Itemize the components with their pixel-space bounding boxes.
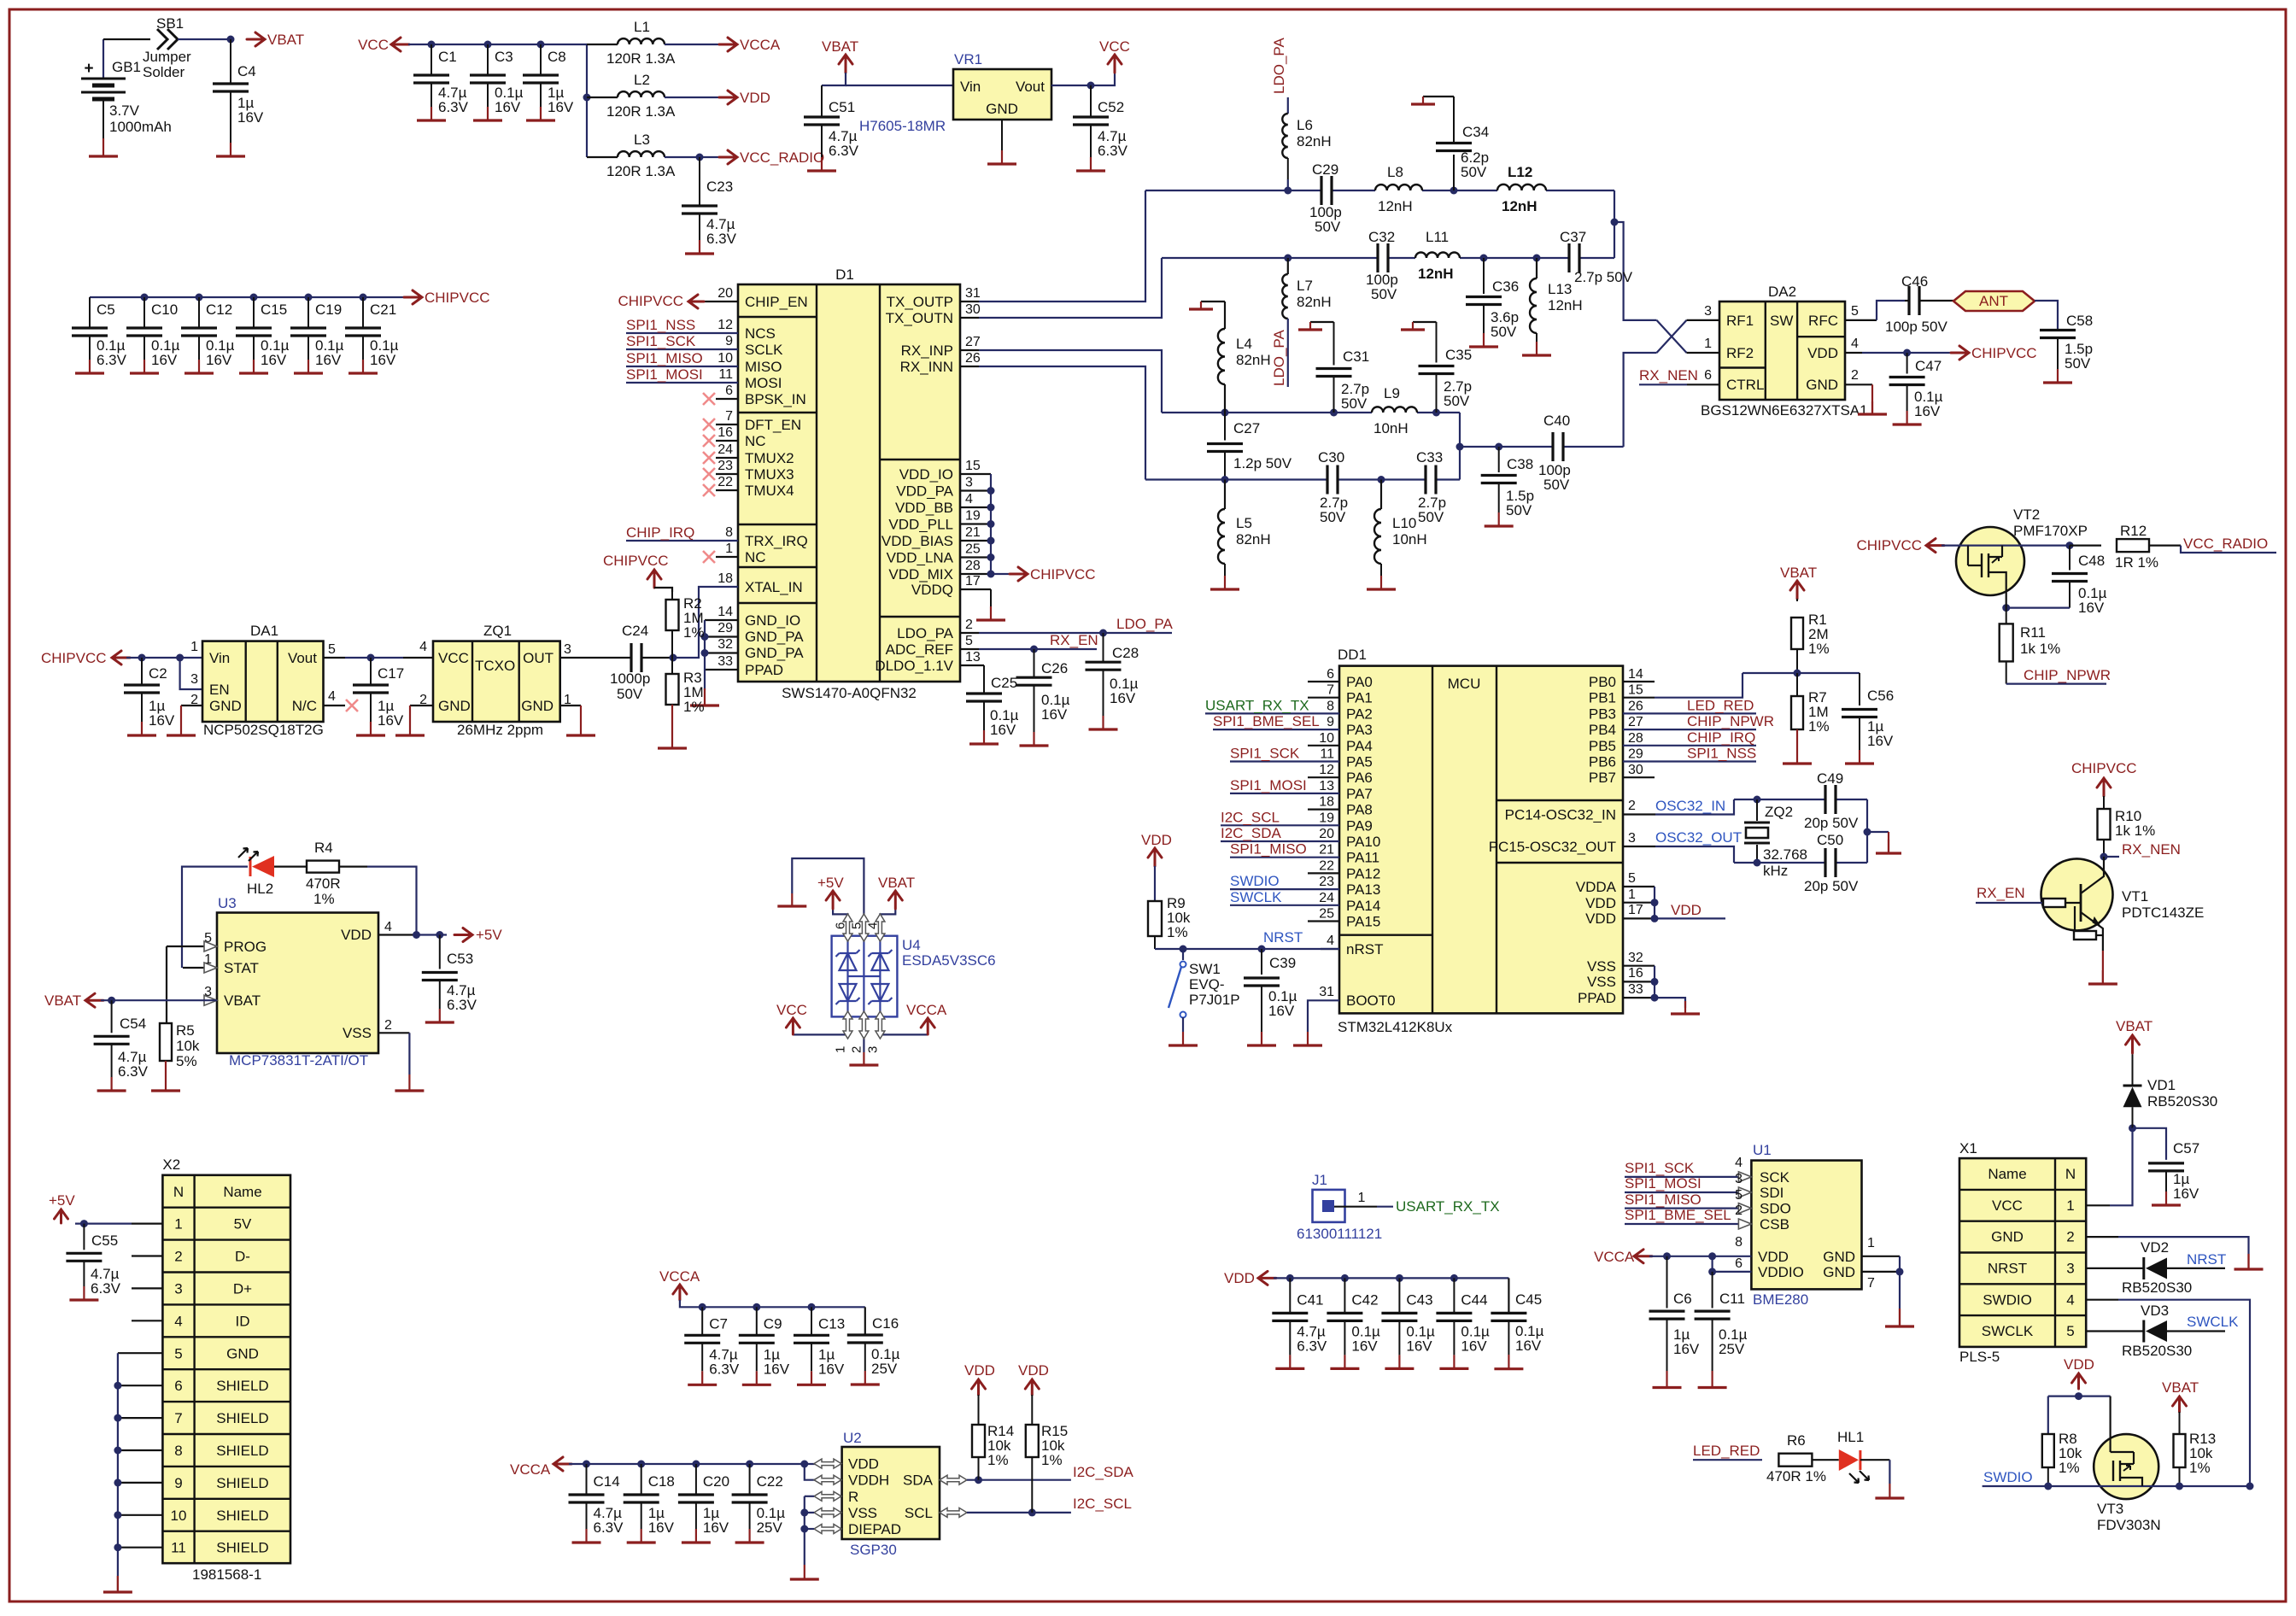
IC ZQ1 pin 4 VCC — [403, 640, 469, 666]
svg-text:16V: 16V — [1914, 403, 1941, 419]
svg-text:NCP502SQ18T2G: NCP502SQ18T2G — [203, 722, 324, 738]
svg-text:C58: C58 — [2066, 313, 2093, 329]
svg-text:RX_INN: RX_INN — [900, 359, 953, 375]
svg-text:16V: 16V — [818, 1361, 845, 1377]
svg-text:PA1: PA1 — [1346, 690, 1373, 706]
svg-text:6: 6 — [834, 922, 848, 929]
svg-text:16V: 16V — [990, 722, 1016, 738]
svg-text:LDO_PA: LDO_PA — [897, 625, 953, 641]
net CHIPVCC flag — [2071, 760, 2137, 796]
svg-text:C38: C38 — [1507, 456, 1533, 472]
svg-text:VDD: VDD — [1141, 832, 1172, 848]
svg-text:11: 11 — [718, 367, 733, 382]
svg-text:nRST: nRST — [1346, 941, 1383, 957]
svg-text:VCCA: VCCA — [906, 1002, 947, 1018]
svg-text:VDDIO: VDDIO — [1758, 1264, 1804, 1280]
wire — [805, 1464, 822, 1480]
svg-text:5: 5 — [174, 1345, 182, 1361]
voltage regulator VR1 — [953, 51, 1051, 120]
svg-text:16V: 16V — [2173, 1186, 2199, 1202]
X1 pin 1 VCC wire — [2086, 1128, 2132, 1206]
svg-text:PB3: PB3 — [1589, 706, 1616, 722]
wire — [101, 999, 217, 1001]
wire — [178, 38, 231, 40]
net VDD flag — [2064, 1356, 2094, 1389]
svg-text:1: 1 — [1704, 337, 1712, 351]
svg-text:NC: NC — [745, 433, 766, 449]
IC D1 pin 26 RX_INN — [900, 351, 1145, 480]
svg-text:D-: D- — [235, 1249, 250, 1265]
svg-text:SGP30: SGP30 — [850, 1542, 897, 1558]
svg-text:82nH: 82nH — [1297, 294, 1332, 310]
IC DA1 pin 5 Vout — [288, 642, 403, 666]
svg-text:PB5: PB5 — [1589, 738, 1616, 754]
ground — [1671, 1001, 1700, 1014]
svg-text:VDD: VDD — [1671, 902, 1701, 918]
svg-text:RB520S30: RB520S30 — [2122, 1279, 2192, 1296]
svg-text:VDDH: VDDH — [848, 1473, 889, 1489]
X2 pin 3 stub — [132, 1287, 162, 1289]
net LDO_PA label (rotated) — [1271, 38, 1288, 114]
net CHIPVCC flag — [404, 290, 490, 306]
svg-text:C19: C19 — [315, 302, 342, 318]
svg-text:C37: C37 — [1560, 229, 1586, 245]
svg-text:50V: 50V — [2065, 355, 2091, 372]
resistor R5 — [160, 1022, 200, 1077]
ground — [1885, 1309, 1914, 1326]
node — [2002, 604, 2010, 612]
svg-text:RX_NEN: RX_NEN — [1639, 367, 1698, 384]
capacitor C19 — [290, 297, 344, 373]
IC U1 pin 3 SDI / net SPI1_MOSI — [1625, 1172, 1751, 1197]
sensor U1 BME280 body — [1751, 1142, 1861, 1308]
IC U2 pin SCL / net I2C_SCL — [940, 1496, 1132, 1517]
resistor R15 — [1026, 1395, 1068, 1513]
IC U3 pin 3 VBAT — [204, 985, 261, 1009]
svg-text:USART_RX_TX: USART_RX_TX — [1396, 1198, 1500, 1215]
svg-text:1: 1 — [1358, 1191, 1366, 1205]
node — [1221, 476, 1229, 483]
svg-text:6.3V: 6.3V — [1297, 1338, 1327, 1354]
svg-text:PA3: PA3 — [1346, 722, 1373, 738]
capacitor C23 — [682, 157, 737, 254]
capacitor C15 — [236, 297, 290, 373]
IC D1 pin 17 VDDQ — [911, 574, 1005, 620]
wire CHIPVCC rail — [90, 296, 407, 298]
svg-text:6.3V: 6.3V — [594, 1519, 624, 1536]
IC D1 pin 5 ADC_REF / net RX_EN — [886, 632, 1098, 658]
svg-text:16V: 16V — [764, 1361, 790, 1377]
IC DA2 pin 5 RFC — [1808, 301, 1905, 329]
svg-text:PLS-5: PLS-5 — [1959, 1349, 2000, 1365]
svg-text:VD1: VD1 — [2147, 1077, 2176, 1093]
node — [746, 1461, 753, 1468]
IC U4 pin 6 / net +5V — [817, 875, 852, 941]
svg-text:PB4: PB4 — [1589, 722, 1616, 738]
IC ZQ1 pin 1 GND — [521, 693, 595, 735]
svg-text:J1: J1 — [1312, 1172, 1327, 1188]
IC U4 pin 5 ground loop — [777, 858, 869, 941]
svg-text:L8: L8 — [1387, 164, 1403, 180]
svg-text:2: 2 — [2066, 1229, 2074, 1245]
svg-text:VDD: VDD — [1585, 895, 1616, 911]
svg-text:H7605-18MR: H7605-18MR — [859, 118, 946, 134]
X2 pin 4 stub — [132, 1320, 162, 1321]
svg-text:16V: 16V — [315, 352, 342, 368]
svg-text:SW: SW — [1770, 313, 1793, 329]
svg-text:9: 9 — [725, 334, 733, 348]
svg-text:12: 12 — [1319, 763, 1334, 777]
svg-text:29: 29 — [1628, 747, 1643, 762]
svg-text:1%: 1% — [2189, 1460, 2211, 1476]
svg-text:R6: R6 — [1787, 1432, 1806, 1449]
node — [1284, 187, 1291, 195]
svg-text:VT3: VT3 — [2097, 1501, 2123, 1517]
capacitor C10 — [126, 297, 180, 373]
node — [1903, 349, 1911, 357]
inductor L11 — [1415, 229, 1460, 282]
inductor L3 — [587, 132, 722, 179]
svg-text:10nH: 10nH — [1392, 531, 1427, 547]
svg-text:22: 22 — [1319, 858, 1334, 873]
diode VD1 RB520S30 — [2123, 1054, 2218, 1128]
svg-text:VDD_PA: VDD_PA — [896, 483, 953, 500]
node — [1754, 796, 1761, 804]
svg-text:C51: C51 — [829, 99, 855, 115]
resistor R3 — [666, 658, 705, 733]
transistor VT3 FDV303N — [2094, 1396, 2250, 1533]
svg-text:11: 11 — [171, 1540, 186, 1556]
IC U2 pin VDDH glyph — [814, 1475, 841, 1484]
svg-text:SCK: SCK — [1760, 1169, 1790, 1186]
svg-text:I2C_SDA: I2C_SDA — [1221, 825, 1282, 841]
inductor L12 — [1497, 164, 1546, 214]
svg-text:16V: 16V — [149, 712, 175, 729]
capacitor C48 — [2052, 546, 2107, 616]
net VDD flag — [1018, 1362, 1049, 1395]
wire osc bottom row — [1734, 862, 1867, 864]
node — [367, 654, 375, 662]
wire osc top row — [1734, 799, 1867, 800]
ground — [0, 0, 1, 1]
svg-text:L6: L6 — [1297, 117, 1313, 133]
svg-text:VDDQ: VDDQ — [911, 582, 953, 598]
svg-text:PPAD: PPAD — [745, 662, 783, 678]
node — [1456, 443, 1464, 451]
svg-text:82nH: 82nH — [1236, 352, 1271, 368]
svg-text:C50: C50 — [1817, 832, 1843, 848]
svg-text:VSS: VSS — [1587, 974, 1616, 990]
svg-text:15: 15 — [965, 459, 981, 473]
wire nRST — [1155, 948, 1339, 950]
svg-text:C45: C45 — [1515, 1291, 1542, 1308]
svg-text:28: 28 — [1628, 731, 1643, 746]
svg-text:PB0: PB0 — [1589, 674, 1616, 690]
capacitor C12 — [181, 297, 235, 373]
svg-text:120R 1.3A: 120R 1.3A — [606, 50, 676, 67]
svg-text:C28: C28 — [1112, 645, 1139, 661]
svg-text:BOOT0: BOOT0 — [1346, 992, 1396, 1009]
node — [696, 154, 704, 161]
svg-text:100p 50V: 100p 50V — [1885, 319, 1947, 335]
svg-text:14: 14 — [717, 605, 733, 619]
svg-text:BGS12WN6E6327XTSA1: BGS12WN6E6327XTSA1 — [1701, 402, 1868, 419]
node — [808, 1303, 816, 1311]
svg-text:L3: L3 — [634, 132, 650, 148]
svg-text:2: 2 — [1628, 799, 1636, 813]
svg-text:C3: C3 — [495, 49, 513, 65]
IC DA2 pin 3 RF1 — [1704, 304, 1754, 329]
ground — [89, 138, 118, 156]
node — [583, 94, 591, 102]
net VCCA flag — [719, 37, 781, 53]
IC U1 pin 5 SDO / net SPI1_MISO — [1625, 1188, 1751, 1214]
svg-text:CHIPVCC: CHIPVCC — [425, 290, 490, 306]
svg-text:L11: L11 — [1426, 229, 1449, 245]
wire row C40 — [1460, 446, 1624, 448]
MCU DD1 pin 20 PA10 / net I2C_SDA — [1221, 825, 1380, 850]
node — [699, 1303, 706, 1311]
svg-text:DLDO_1.1V: DLDO_1.1V — [875, 658, 953, 674]
MCU DD1 pin 29 PB6 / net SPI1_NSS — [1589, 746, 1756, 770]
svg-text:20: 20 — [717, 286, 733, 301]
capacitor C40 — [1538, 413, 1571, 493]
svg-text:4: 4 — [2066, 1291, 2074, 1308]
svg-text:VBAT: VBAT — [878, 875, 915, 891]
svg-text:32: 32 — [717, 637, 733, 652]
resistor R14 — [972, 1395, 1014, 1480]
svg-text:L2: L2 — [634, 72, 650, 88]
svg-text:PDTC143ZE: PDTC143ZE — [2122, 905, 2204, 921]
svg-text:+5V: +5V — [49, 1192, 75, 1209]
svg-text:VT1: VT1 — [2122, 888, 2148, 905]
net SWDIO label — [1983, 1469, 2094, 1486]
svg-text:CHIP_NPWR: CHIP_NPWR — [1687, 713, 1774, 729]
op-amp U1 placeholder -- actually IC D1 SWS1470-A0QFN32 body — [738, 266, 960, 701]
wire D1 gnd bus — [704, 620, 706, 690]
svg-text:VD3: VD3 — [2141, 1303, 2169, 1319]
wire EN feed — [180, 658, 202, 689]
svg-text:12: 12 — [717, 318, 733, 332]
wire U2 ground bus — [804, 1496, 805, 1565]
svg-text:GND: GND — [209, 698, 242, 714]
svg-text:L1: L1 — [634, 19, 650, 35]
svg-text:VBAT: VBAT — [44, 992, 81, 1009]
svg-text:31: 31 — [965, 286, 981, 301]
svg-text:CHIPVCC: CHIPVCC — [603, 553, 669, 569]
svg-text:VCCA: VCCA — [740, 37, 781, 53]
svg-text:50V: 50V — [617, 686, 643, 702]
resistor R6 — [1766, 1432, 1826, 1484]
node — [1864, 828, 1871, 836]
svg-text:50V: 50V — [1506, 502, 1532, 518]
svg-text:PMF170XP: PMF170XP — [2013, 523, 2088, 539]
svg-text:L13: L13 — [1548, 281, 1572, 297]
svg-text:DFT_EN: DFT_EN — [745, 417, 801, 433]
transistor VT1 PDTC143ZE — [1976, 857, 2204, 951]
svg-text:19: 19 — [1319, 811, 1334, 825]
svg-text:5: 5 — [1735, 1188, 1742, 1203]
svg-text:1k 1%: 1k 1% — [2115, 823, 2155, 839]
svg-text:N: N — [2065, 1166, 2076, 1182]
net CHIPVCC flag — [603, 553, 672, 592]
svg-text:C4: C4 — [237, 63, 256, 79]
wire crossover to DA2 — [1657, 320, 1720, 353]
X2 pin 1 wire / net +5V — [49, 1192, 162, 1224]
switch SW1 EVQ-P7J01P — [1168, 949, 1240, 1032]
inductor L4 — [1189, 302, 1271, 413]
svg-text:PPAD: PPAD — [1578, 990, 1616, 1006]
svg-text:C25: C25 — [991, 675, 1017, 691]
svg-text:PB1: PB1 — [1589, 690, 1616, 706]
svg-text:26: 26 — [965, 351, 981, 366]
IC U4 pin 3 / net VCCA — [865, 1002, 946, 1053]
IC DA2 SW label — [1770, 313, 1793, 329]
svg-text:ADC_REF: ADC_REF — [886, 641, 953, 658]
svg-text:C49: C49 — [1817, 770, 1843, 787]
IC DA2 BGS12WN6E body — [1701, 284, 1868, 419]
svg-text:10: 10 — [171, 1508, 187, 1524]
node — [1450, 1274, 1458, 1282]
svg-text:5: 5 — [2066, 1323, 2074, 1339]
svg-text:SHIELD: SHIELD — [216, 1443, 268, 1459]
net CHIPVCC flag — [1951, 345, 2037, 361]
svg-text:4: 4 — [1851, 337, 1859, 351]
svg-text:6.3V: 6.3V — [829, 143, 859, 159]
svg-text:NRST: NRST — [1263, 929, 1303, 946]
wire VT2 gate — [2006, 592, 2007, 608]
crystal ZQ2 32.768kHz — [1744, 799, 1807, 879]
svg-text:I2C_SCL: I2C_SCL — [1221, 809, 1280, 825]
net flag ANT — [1953, 291, 2035, 311]
svg-text:50V: 50V — [1315, 219, 1341, 235]
svg-text:L5: L5 — [1236, 515, 1252, 531]
svg-text:SPI1_MISO: SPI1_MISO — [1230, 841, 1307, 858]
svg-text:HL2: HL2 — [247, 881, 273, 897]
svg-text:2: 2 — [174, 1249, 182, 1265]
svg-text:6.3V: 6.3V — [118, 1063, 149, 1080]
node — [436, 931, 443, 939]
svg-text:4: 4 — [965, 492, 973, 506]
svg-text:7: 7 — [1867, 1276, 1875, 1291]
capacitor C43 — [1381, 1278, 1435, 1368]
svg-text:C57: C57 — [2173, 1140, 2199, 1156]
ground — [1783, 750, 1812, 764]
svg-text:SWCLK: SWCLK — [1230, 889, 1282, 905]
svg-text:PB7: PB7 — [1589, 770, 1616, 786]
svg-text:OSC32_IN: OSC32_IN — [1655, 798, 1725, 814]
capacitor C38 — [1481, 447, 1534, 526]
svg-text:7: 7 — [1327, 683, 1334, 698]
net VCCA flag — [659, 1268, 700, 1300]
capacitor C57 — [2148, 1140, 2199, 1205]
svg-text:1.2p 50V: 1.2p 50V — [1233, 455, 1292, 471]
svg-text:Solder: Solder — [143, 64, 184, 80]
MCU DD1 pin 21 PA11 / net SPI1_MISO — [1230, 841, 1379, 866]
svg-text:CHIP_IRQ: CHIP_IRQ — [1687, 729, 1755, 746]
svg-text:SPI1_BME_SEL: SPI1_BME_SEL — [1213, 713, 1320, 729]
svg-text:SW1: SW1 — [1189, 961, 1221, 977]
svg-text:VCC_RADIO: VCC_RADIO — [740, 149, 824, 166]
svg-text:1: 1 — [1867, 1236, 1875, 1250]
svg-text:RF2: RF2 — [1726, 345, 1754, 361]
svg-text:SWDIO: SWDIO — [1983, 1469, 2033, 1485]
svg-text:C27: C27 — [1233, 420, 1260, 436]
svg-text:LDO_PA: LDO_PA — [1271, 38, 1287, 94]
svg-text:C18: C18 — [648, 1473, 675, 1490]
svg-text:SHIELD: SHIELD — [216, 1540, 268, 1556]
svg-text:L10: L10 — [1392, 515, 1416, 531]
svg-text:1%: 1% — [683, 624, 705, 641]
svg-text:6.3V: 6.3V — [447, 997, 477, 1013]
wire — [126, 657, 202, 659]
svg-text:50V: 50V — [1320, 509, 1346, 525]
svg-text:7: 7 — [725, 409, 733, 424]
IC DA2 pin 4 VDD — [1807, 337, 1953, 361]
node — [196, 294, 203, 302]
svg-text:I2C_SCL: I2C_SCL — [1073, 1496, 1132, 1512]
node — [250, 294, 258, 302]
svg-text:SPI1_SCK: SPI1_SCK — [1230, 746, 1300, 762]
node — [1708, 1268, 1716, 1275]
svg-text:NRST: NRST — [2187, 1251, 2226, 1268]
capacitor C37 — [1560, 229, 1633, 285]
svg-text:Vout: Vout — [1016, 79, 1045, 95]
svg-text:20p 50V: 20p 50V — [1804, 815, 1859, 831]
svg-text:CHIP_NPWR: CHIP_NPWR — [2024, 667, 2111, 683]
wire — [1866, 799, 1868, 863]
capacitor C54 — [94, 1000, 149, 1091]
svg-text:12nH: 12nH — [1548, 297, 1583, 313]
svg-text:EN: EN — [209, 682, 230, 698]
svg-text:5: 5 — [328, 642, 336, 657]
svg-text:2: 2 — [1735, 1203, 1742, 1218]
gas sensor U2 SGP30 body — [842, 1430, 940, 1558]
svg-text:LED_RED: LED_RED — [1693, 1443, 1760, 1459]
node — [1378, 476, 1385, 483]
svg-text:PA8: PA8 — [1346, 802, 1373, 818]
IC D1 pin 12 NCS / net SPI1_NSS — [626, 317, 776, 342]
inductor L1 — [587, 19, 722, 67]
MCU DD1 pin 4 nRST — [1321, 934, 1383, 957]
svg-text:11: 11 — [1320, 747, 1334, 762]
MCU DD1 pin 10 PA4 — [1308, 731, 1373, 754]
resistor R11 — [2000, 608, 2061, 684]
svg-text:VSS: VSS — [848, 1505, 877, 1521]
svg-text:16V: 16V — [1110, 690, 1136, 706]
svg-text:5V: 5V — [234, 1216, 252, 1232]
wire — [822, 73, 953, 85]
svg-text:16V: 16V — [1673, 1341, 1700, 1357]
svg-text:LDO_PA: LDO_PA — [1116, 616, 1173, 632]
svg-text:VCC: VCC — [1099, 38, 1130, 55]
svg-text:26: 26 — [1628, 699, 1643, 713]
svg-text:VCC: VCC — [438, 650, 469, 666]
capacitor C16 — [847, 1307, 900, 1385]
wire — [1459, 413, 1461, 480]
svg-text:50V: 50V — [1543, 477, 1570, 493]
capacitor C32 — [1366, 229, 1398, 302]
svg-text:VCCA: VCCA — [1594, 1249, 1635, 1265]
X1 pin 4 SWDIO wire — [2086, 1300, 2250, 1486]
MCU DD1 pin 31 BOOT0 — [1293, 985, 1396, 1045]
svg-text:CHIPVCC: CHIPVCC — [1856, 537, 1922, 553]
svg-text:C44: C44 — [1461, 1291, 1487, 1308]
svg-text:SDO: SDO — [1760, 1201, 1791, 1217]
resistor R4 — [306, 840, 417, 935]
wire PROG to R5 — [166, 946, 167, 1023]
capacitor C47 — [1889, 353, 1943, 424]
